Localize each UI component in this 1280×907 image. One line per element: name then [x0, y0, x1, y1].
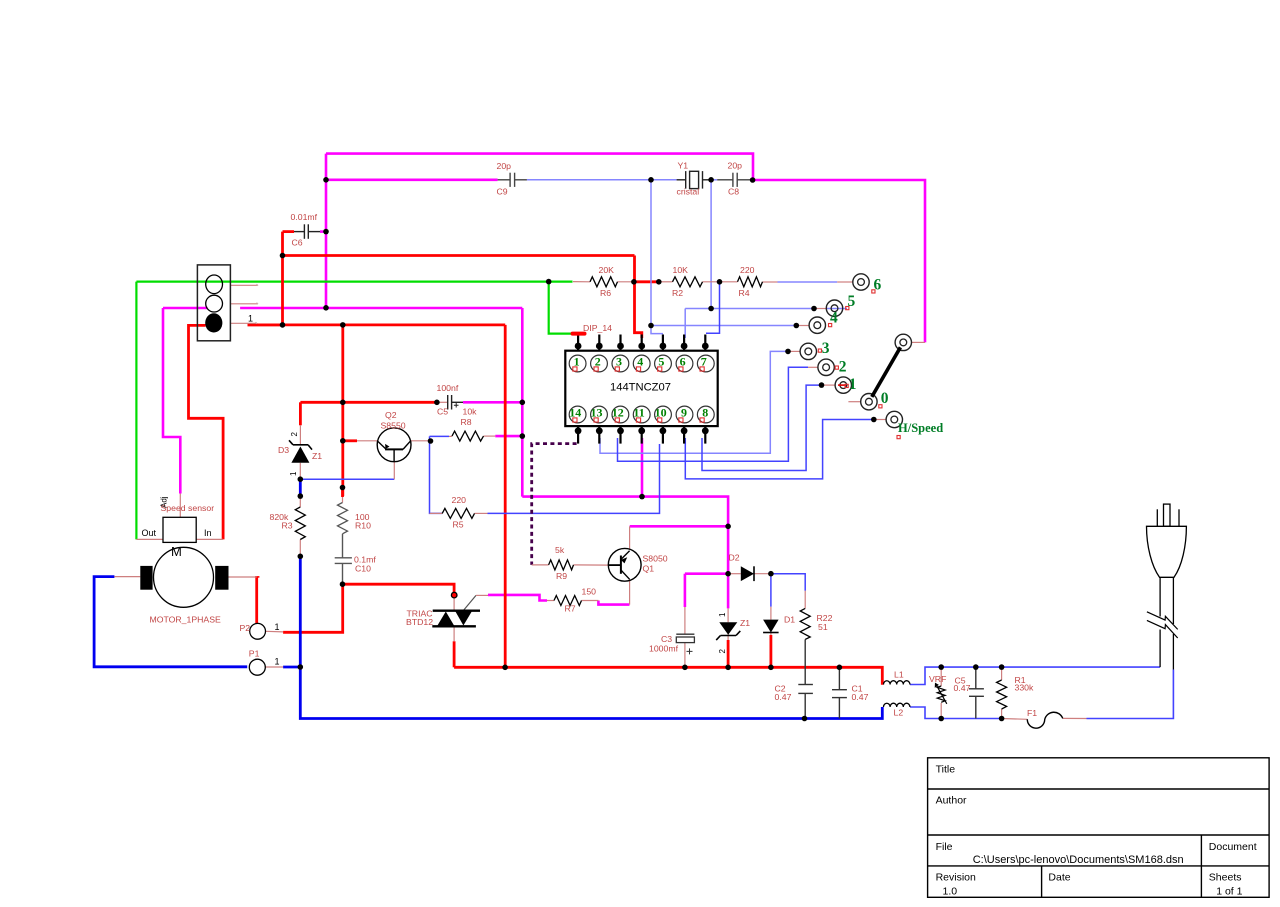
junction at 505.1,667.3	[502, 665, 508, 671]
svg-text:20p: 20p	[497, 161, 512, 171]
lead R8 right	[484, 435, 496, 437]
wire blue rail right of L2	[910, 707, 1002, 719]
switch top circle	[895, 334, 911, 350]
wire magenta C3 branch	[685, 572, 728, 575]
wire magenta C5 right	[463, 401, 522, 404]
lead conn0	[848, 401, 860, 403]
lead R7 left	[547, 600, 554, 602]
lead R4 right	[763, 281, 778, 283]
svg-text:In: In	[204, 528, 212, 538]
svg-text:Z1: Z1	[740, 618, 750, 628]
lead motor left	[114, 576, 140, 578]
wire green vertical to sensor Out	[135, 282, 137, 540]
lead Q2 collector	[393, 462, 395, 480]
junction at 326,179.8	[323, 177, 329, 183]
tiny stub end marks	[256, 284, 259, 324]
svg-text:Speed sensor: Speed sensor	[161, 503, 215, 513]
lead C3 bottom	[684, 643, 686, 667]
wire blue conn5 left drop to pin6	[684, 309, 686, 339]
wire magenta bus left piece	[163, 307, 208, 310]
svg-text:DIP_14: DIP_14	[583, 323, 612, 333]
wire blue rail after fuse	[1087, 670, 1174, 719]
junction at 326,307.8	[323, 305, 329, 311]
svg-text:Adj: Adj	[160, 496, 169, 508]
capacitor C2 0.47	[798, 639, 813, 718]
svg-text:Revision: Revision	[936, 872, 976, 884]
wire dashed pin14 to R9	[532, 444, 577, 565]
svg-text:C9: C9	[497, 187, 508, 197]
svg-text:M: M	[171, 544, 182, 559]
junction at 300.3,556.3	[298, 554, 304, 560]
IC pin circles top row	[569, 355, 714, 372]
lead Q1 collector	[629, 526, 631, 549]
svg-text:4: 4	[830, 310, 838, 327]
svg-text:C5: C5	[437, 407, 448, 417]
svg-text:Y1: Y1	[678, 161, 689, 171]
wire blue pin12 line	[618, 367, 809, 461]
lead R9 right	[574, 564, 609, 566]
wire blue crystal left to pin5	[651, 326, 663, 334]
svg-text:0.47: 0.47	[852, 692, 869, 702]
svg-text:144TNCZ07: 144TNCZ07	[610, 382, 671, 394]
junction at 728.1,573.7	[725, 571, 731, 577]
resistor R9 5k	[549, 560, 574, 570]
wire magenta Q1 collector feed	[630, 525, 728, 528]
lead connHS	[874, 419, 886, 421]
svg-text:S8050: S8050	[643, 554, 668, 564]
svg-text:1: 1	[275, 657, 280, 667]
svg-text:D1: D1	[784, 615, 795, 625]
svg-text:330k: 330k	[1015, 683, 1034, 693]
wire red drop to R6R2 junction and pin4	[635, 256, 642, 339]
svg-text:H/Speed: H/Speed	[898, 421, 943, 435]
junction at 941.2,718.5	[938, 716, 944, 722]
junction at 282.5,255.5	[280, 253, 286, 259]
junction at 300.3,496.1	[298, 493, 304, 499]
wire red pin1 thick segment	[248, 323, 283, 326]
lead triac top	[453, 598, 455, 611]
IC pin numbers bottom	[569, 406, 708, 420]
connector 4	[809, 317, 825, 333]
svg-text:C6: C6	[292, 238, 303, 248]
svg-text:5k: 5k	[555, 545, 565, 555]
svg-text:S8550: S8550	[381, 421, 406, 431]
wire blue R2R4 drop to pin7	[706, 282, 720, 334]
junction at 342.5,487.5	[340, 485, 346, 491]
junction at 342.8,402.3	[340, 400, 346, 406]
lead triac gate slant	[464, 595, 476, 609]
svg-text:R4: R4	[739, 288, 750, 298]
lead P2 pin	[266, 630, 284, 633]
wire blue D2 to R22	[771, 574, 805, 591]
svg-text:1000mf: 1000mf	[649, 644, 679, 654]
lead conn4	[796, 325, 809, 327]
svg-text:P2: P2	[240, 623, 251, 633]
connector 1	[835, 377, 851, 393]
wire blue bus D3 segment	[299, 479, 302, 496]
junction at 788,351.4	[785, 349, 791, 355]
lead conn1	[822, 384, 836, 386]
svg-text:P1: P1	[249, 649, 260, 659]
svg-text:Date: Date	[1048, 872, 1070, 884]
lead R3 top	[299, 496, 301, 507]
capacitor C9 20p	[498, 173, 527, 187]
red component labels	[150, 161, 1038, 719]
junction at 642,496.6	[639, 494, 645, 500]
junction at 342.5,584.2	[340, 581, 346, 587]
lead switch top	[912, 341, 926, 343]
lead conn6	[837, 281, 853, 283]
svg-text:10K: 10K	[673, 265, 689, 275]
svg-text:1: 1	[248, 314, 253, 324]
junction at 728.1,526.3	[725, 524, 731, 530]
wire red vertical x343	[341, 325, 344, 496]
wire blue conn4 line	[651, 325, 796, 327]
svg-text:C3: C3	[661, 634, 672, 644]
wire red R10 top lead	[341, 488, 344, 498]
lead D1 top	[770, 607, 772, 620]
small black pin number labels	[248, 314, 280, 667]
lead Q2 emitter	[411, 440, 430, 442]
resistor R1 330k vertical	[997, 680, 1007, 709]
junction at 796.3,325.5	[794, 323, 800, 329]
diode D2	[741, 566, 754, 581]
svg-text:C8: C8	[728, 187, 739, 197]
lead R22 top	[804, 591, 806, 609]
svg-text:VRF: VRF	[929, 674, 946, 684]
motor MOTOR_1PHASE	[140, 544, 228, 607]
connector 2	[818, 359, 834, 375]
junction at 839.4,667.3	[837, 665, 843, 671]
wire red motor to P2	[255, 577, 258, 623]
wire red top horizontal y255	[283, 254, 635, 257]
diode D1	[763, 620, 779, 633]
connector block 3pin	[197, 265, 230, 341]
svg-text:20K: 20K	[599, 265, 615, 275]
junction at 300.3,667	[298, 664, 304, 670]
junction at 752.6,180	[750, 177, 756, 183]
wire magenta vertical x326	[325, 154, 328, 308]
lead VRF top	[940, 667, 942, 686]
svg-text:R2: R2	[672, 288, 683, 298]
lead D2 left	[728, 573, 741, 575]
wire blue Q2 collector to D3	[300, 478, 394, 480]
junction at 711.1,308.5	[708, 306, 714, 312]
rotated pin labels for D3	[160, 432, 728, 654]
svg-text:L1: L1	[894, 670, 904, 680]
wire magenta R8 right	[495, 435, 522, 438]
wire red P2 line	[283, 584, 343, 632]
title block	[928, 758, 1270, 898]
lead D2 right	[755, 573, 771, 575]
lead R1 bottom	[1001, 709, 1003, 719]
wire red left connector wire	[189, 325, 224, 539]
wire blue rail right of L1	[910, 667, 1160, 684]
svg-text:1: 1	[849, 376, 857, 393]
lead R9 left	[532, 564, 549, 566]
triac BTD12	[432, 592, 480, 626]
IC pin circles bottom row	[569, 406, 714, 423]
wire magenta pin11 drop	[641, 438, 644, 497]
lead R5 right	[475, 512, 488, 514]
lead R7 right	[582, 600, 599, 602]
red tick motor lead	[255, 576, 259, 578]
lead connector block bottom pin	[230, 322, 256, 324]
lead conn5	[813, 308, 826, 310]
junction at 770.9,573.7	[768, 571, 774, 577]
transistor Q2 S8550	[377, 428, 411, 462]
svg-text:D2: D2	[729, 553, 740, 563]
lead R3 bottom	[299, 540, 301, 557]
lead R6 left	[573, 281, 590, 283]
wire blue crystal right drop	[710, 180, 712, 309]
wire magenta C3 drop	[684, 574, 687, 607]
svg-text:D3: D3	[278, 445, 289, 455]
lead R2 right	[703, 281, 720, 283]
wire blue pin9 line	[685, 420, 874, 479]
wire red main vertical x505	[504, 325, 507, 667]
svg-text:10k: 10k	[463, 407, 478, 417]
connector P1	[249, 659, 265, 675]
IC bottom pin stubs and dots	[578, 426, 705, 444]
svg-text:1: 1	[275, 622, 280, 632]
wire red main horizontal y325	[248, 323, 506, 326]
lead motor right	[229, 576, 257, 578]
wire blue C9 to crystal	[527, 179, 677, 181]
wire red C6 drop	[281, 232, 284, 325]
connector H/Speed	[886, 411, 902, 427]
svg-text:0.01mf: 0.01mf	[291, 212, 318, 222]
junction at 814,308.5	[811, 306, 817, 312]
capacitor C1 0.47	[832, 667, 847, 718]
junction at 430.5,441	[428, 438, 434, 444]
lead R1 top	[1001, 667, 1003, 680]
lead R10 top	[342, 497, 344, 503]
IC U1 DIP_14 144TNCZ07	[565, 351, 717, 426]
capacitor C5 100nf	[448, 395, 463, 410]
svg-text:6: 6	[874, 277, 882, 294]
connector P2	[250, 623, 266, 639]
wire magenta top horizontal	[326, 154, 753, 180]
wire red C6 left	[283, 230, 295, 233]
junction at 282.5,324.9	[280, 322, 286, 328]
connector 0	[861, 394, 877, 410]
lead P1 pin	[265, 666, 283, 668]
junction at 522.3,402.3	[520, 400, 526, 406]
switch blade	[872, 347, 901, 397]
wire magenta C9 feed	[326, 179, 498, 182]
wire blue pin10 line	[488, 444, 660, 513]
speed sensor box	[163, 517, 196, 542]
svg-text:BTD12: BTD12	[406, 617, 433, 627]
wire magenta C6 right stub	[320, 230, 326, 233]
green connector numbers	[822, 277, 889, 408]
wire blue conn5 line	[685, 308, 813, 310]
resistor R10 100 vertical	[338, 503, 348, 534]
junction at 300.3,479.2	[298, 476, 304, 482]
resistor R3 820k vertical	[295, 507, 305, 540]
lead conn3	[788, 350, 800, 352]
lead R4 left	[720, 281, 738, 283]
svg-text:Z1: Z1	[312, 451, 322, 461]
svg-text:Title: Title	[936, 764, 956, 776]
capacitor C10 0.1mf	[335, 534, 352, 584]
lead connector block mid pin	[230, 303, 257, 305]
lead VRF bottom	[940, 703, 942, 719]
svg-text:5: 5	[848, 293, 856, 310]
junction at 342.8,440.8	[340, 438, 346, 444]
svg-text:220: 220	[740, 265, 755, 275]
small red terminal squares	[818, 290, 900, 439]
wire red R6 right jumper	[635, 280, 659, 283]
svg-text:C:\Users\pc-lenovo\Documents\S: C:\Users\pc-lenovo\Documents\SM168.dsn	[973, 854, 1184, 866]
svg-text:Author: Author	[936, 795, 967, 807]
wire red D3 top drop	[299, 402, 302, 425]
wire red horizontal y402	[300, 401, 437, 404]
svg-text:1: 1	[718, 612, 727, 617]
zener diode D3 Z1	[289, 440, 312, 463]
svg-text:R5: R5	[453, 520, 464, 530]
junction at 804.5,718.5	[802, 716, 808, 722]
lead D3 bottom	[299, 463, 301, 479]
resistor R4 220	[738, 277, 763, 287]
svg-text:220: 220	[452, 495, 467, 505]
capacitor C3 1000mf electrolytic	[676, 634, 694, 654]
lead R2 left	[659, 281, 673, 283]
lead triac bottom	[453, 625, 455, 641]
wire red triac bottom	[453, 641, 456, 667]
wire blue P1 right	[283, 666, 300, 669]
IC top pin stubs and dots	[578, 335, 705, 351]
svg-text:MOTOR_1PHASE: MOTOR_1PHASE	[150, 615, 221, 625]
junction at 342.8,324.9	[340, 322, 346, 328]
Out / In / M labels	[142, 528, 212, 538]
mains plug	[1147, 504, 1187, 669]
svg-text:51: 51	[818, 622, 828, 632]
junction at 711.1,179.8	[708, 177, 714, 183]
resistor R8 10k	[452, 431, 484, 441]
wire blue crystal mid	[711, 179, 717, 181]
transistor Q1 S8050	[608, 548, 641, 581]
wire blue crystal left drop	[650, 180, 652, 326]
wire red D1 bottom	[770, 635, 773, 667]
connector 5	[826, 300, 842, 316]
junction at 658.8,281.8	[656, 279, 662, 285]
lead R6 right	[618, 281, 635, 283]
svg-text:1.0: 1.0	[943, 886, 958, 898]
junction at 770.9,667.3	[768, 665, 774, 671]
wire magenta bus to sensor	[163, 308, 180, 494]
svg-text:Q1: Q1	[643, 564, 655, 574]
svg-text:0: 0	[881, 390, 889, 407]
wire blue D1 top	[770, 574, 772, 607]
lead triac gate horizontal	[476, 594, 488, 596]
junction at 1001.6,667.1	[999, 664, 1005, 670]
wire blue bus below R3	[300, 556, 882, 718]
wire red Z1 bottom	[727, 640, 730, 667]
svg-text:R7: R7	[565, 604, 576, 614]
IC pin numbers top	[574, 355, 707, 369]
svg-text:20p: 20p	[728, 161, 743, 171]
svg-text:File: File	[936, 841, 953, 853]
wire green horizontal	[136, 281, 572, 283]
lead F1 left	[1002, 718, 1028, 721]
svg-text:R8: R8	[461, 417, 472, 427]
lead C5cap left	[437, 401, 448, 403]
capacitor C5b 0.47	[969, 667, 984, 718]
potentiometer VRF	[935, 683, 947, 704]
svg-text:1: 1	[289, 471, 298, 476]
svg-text:150: 150	[582, 587, 597, 597]
connector 6	[853, 274, 869, 290]
lead sensor out	[136, 538, 163, 540]
wire magenta triac gate	[488, 595, 547, 601]
IC pin red squares	[573, 367, 704, 422]
svg-text:C10: C10	[355, 564, 371, 574]
svg-text:2: 2	[290, 432, 299, 437]
lead D1 bottom	[770, 633, 772, 636]
svg-text:L2: L2	[894, 708, 904, 718]
junction at 684.9,667.3	[682, 665, 688, 671]
junction at 651,325.5	[648, 323, 654, 329]
svg-text:Sheets: Sheets	[1209, 872, 1242, 884]
junction at 728.1,667.3	[725, 665, 731, 671]
svg-text:R6: R6	[600, 288, 611, 298]
wire blue motor left	[94, 577, 247, 667]
junction at 821.5,385.1	[819, 382, 825, 388]
junction at 633.9,281.8	[631, 279, 637, 285]
wire red C10 to TRIAC	[343, 584, 455, 592]
junction at 975.8,667.1	[973, 664, 979, 670]
svg-text:R9: R9	[556, 571, 567, 581]
wire red bottom rail	[454, 667, 882, 685]
wire magenta pin11 bus	[522, 497, 728, 574]
lead connector block top pin	[230, 284, 257, 286]
svg-text:Q2: Q2	[385, 410, 397, 420]
inductor L1	[884, 681, 910, 685]
capacitor C8 20p	[717, 173, 752, 187]
lead C3 top	[684, 607, 686, 634]
svg-text:R10: R10	[355, 521, 371, 531]
svg-text:cristal: cristal	[677, 187, 700, 197]
svg-text:100nf: 100nf	[437, 383, 459, 393]
resistor R22 51 vertical	[800, 608, 810, 639]
junction at 873.8,419.5	[871, 417, 877, 423]
wire blue R5 left riser	[430, 436, 443, 513]
junction at 1001.6,718.5	[999, 716, 1005, 722]
wire red Q2 base stub	[343, 439, 357, 442]
wire green drop to DIP pin1	[549, 282, 571, 334]
wire blue R4 right	[778, 281, 838, 283]
svg-text:R3: R3	[282, 521, 293, 531]
svg-text:Document: Document	[1209, 841, 1257, 853]
wire magenta vertical x522	[521, 308, 524, 497]
lead Q2 base	[357, 440, 378, 442]
wire blue pin13 line	[600, 351, 788, 453]
lead R5 left	[430, 512, 443, 514]
wire magenta bus y308	[240, 307, 522, 310]
lead R8 left	[449, 435, 452, 437]
svg-text:2: 2	[839, 359, 847, 376]
svg-text:0.47: 0.47	[954, 683, 971, 693]
wire magenta R7 to Q1 emitter	[598, 601, 629, 605]
lead sensor in	[196, 538, 223, 540]
wire blue pin8 line	[702, 385, 822, 470]
lead conn2	[808, 366, 818, 368]
wire magenta C8 to switch	[753, 180, 925, 342]
svg-text:3: 3	[822, 340, 830, 357]
resistor R7 150	[554, 596, 581, 606]
